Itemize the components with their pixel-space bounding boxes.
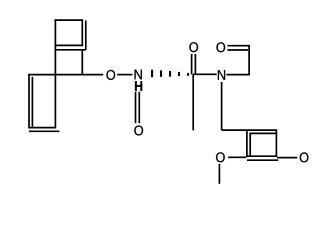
aldehyde C=O double bond: bottom line <box>227 49 248 51</box>
bond N-CH2 (amide N right) <box>226 74 250 76</box>
ring bottom-right: right edge <box>275 129 277 157</box>
bond ring to right O <box>277 157 297 159</box>
ring bottom-left: outer bottom double-bond line <box>29 130 60 132</box>
bond CH2 to bottom ring / ring top edge (collinear) <box>222 129 277 131</box>
N=O double bond below NH: left line <box>135 92 137 123</box>
atom label O ether <box>106 70 115 80</box>
ring middle square: right edge <box>81 50 83 74</box>
double bond outer line right of top square <box>85 21 87 51</box>
bond O-CH3 methyl below methoxy O <box>218 164 220 184</box>
ring bottom-right: inner top double-bond line <box>249 132 276 134</box>
double bond line below top square <box>55 49 87 51</box>
atom label O above stereocenter <box>189 42 198 52</box>
atom label O right <box>300 152 309 162</box>
atom label H of NH <box>135 81 142 91</box>
hashed stereo bond (NH to stereocenter) <box>151 70 189 77</box>
ring bottom-right: outer bottom double-bond line <box>247 159 278 161</box>
ring top-left square: right edge <box>81 19 83 46</box>
atom label N amide <box>218 70 225 80</box>
ring bottom-right: bottom edge <box>246 155 277 157</box>
bond C-CH3 methyl down from stereocenter <box>192 74 194 130</box>
bond methoxy O to ring <box>228 156 246 158</box>
atom label O below NH <box>134 126 143 136</box>
ring bottom-left: outer left edge <box>28 74 30 128</box>
ring top-left square: bottom edge <box>55 44 84 46</box>
left vertical shared edge (squares left side + bottom ring right side) <box>54 19 56 127</box>
bond O-N (ether O to NH) <box>117 74 132 76</box>
ring top-left square: top edge <box>55 19 84 21</box>
ring bottom-left: bottom edge <box>28 127 56 129</box>
N=O double bond below NH: right line <box>138 92 140 123</box>
bond CH2-CHO vertical <box>248 46 250 75</box>
ring bottom-right: left edge <box>246 130 248 156</box>
atom label O methoxy <box>216 152 225 162</box>
C=O double bond above stereocenter: left line <box>191 54 193 74</box>
atom label N (NH) <box>135 70 142 80</box>
bond N-CH2 down from amide N <box>221 82 223 130</box>
ring bottom-left: inner left double-bond line <box>31 77 33 127</box>
bond C-N (stereocenter to amide N) <box>193 73 217 75</box>
long horizontal bond C-O (ring to ether O) <box>28 74 103 76</box>
C=O double bond above stereocenter: right line <box>194 54 196 74</box>
aldehyde C=O double bond: top line <box>227 45 250 47</box>
ring bottom-right: inner left double-bond line <box>249 133 251 156</box>
atom label O aldehyde <box>216 42 225 52</box>
